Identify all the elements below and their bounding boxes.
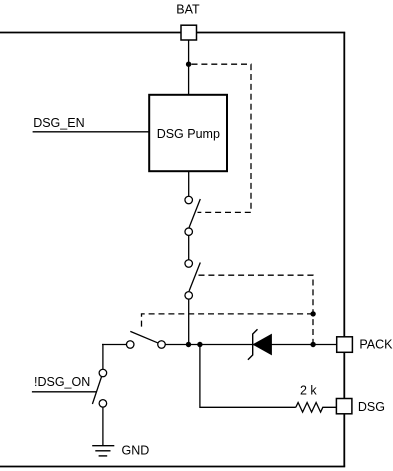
switch S3 arm [130,331,158,343]
wire S1 to S2 [188,235,190,260]
wire S2 to PACK line [188,299,190,345]
wire dashed control from BAT node to switch S1 arm [192,64,252,212]
wire resistor branch [200,345,296,408]
switch S2 arm [189,263,200,292]
wire dashed control branch to switch S3 arm [142,314,314,329]
node junction below BAT [186,61,191,66]
node junction dashed control / PACK line [310,342,315,347]
switch S2 bottom contact [185,292,193,300]
wire main PACK line [165,344,337,346]
switch S4 top contact [99,369,107,377]
wire right rail (PACK- bus) [343,33,345,467]
wire DSG Pump output to switch S1 [188,171,190,196]
switch S4 arm [92,377,101,405]
svg-text:DSG_EN: DSG_EN [33,116,84,130]
diode D1 zener cathode bar [248,329,258,360]
switch S1 bottom contact [185,228,193,236]
switch S2 top contact [185,260,193,268]
wire DSG_EN input [33,131,150,133]
svg-text:DSG Pump: DSG Pump [157,127,220,141]
svg-text:DSG: DSG [358,400,385,414]
svg-text:BAT: BAT [176,3,200,17]
svg-text:!DSG_ON: !DSG_ON [34,375,90,389]
terminal BAT [181,25,197,40]
svg-text:2 k: 2 k [300,384,317,398]
switch S1 arm [189,199,200,228]
switch S3 right contact [158,341,166,349]
switch S4 bottom contact [99,400,107,408]
wire !DSG_ON control [32,391,97,393]
switch S1 top contact [185,196,193,204]
wire bottom rail [0,466,345,468]
terminal DSG [336,399,352,414]
op-amp U1 DSG Pump box [149,95,227,171]
wire BAT terminal to DSG Pump [188,40,190,95]
node junction on dashed control [310,311,315,316]
switch S3 left contact [126,341,134,349]
wire corner down to switch S4 [102,344,104,370]
wire dashed control from switch S2 arm to PACK node [199,275,314,343]
node junction resistor branch [197,342,202,347]
wire left stub to switch S3 [102,344,127,346]
resistor R1 2k zigzag [296,403,337,413]
terminal PACK [337,337,353,353]
diode D1 zener triangle [253,335,271,355]
ground [92,446,114,456]
wire top rail (BAT bus) [0,32,345,34]
svg-text:PACK: PACK [359,338,393,352]
node junction switch chain / PACK line [186,342,191,347]
wire S4 to ground [102,407,104,446]
svg-text:GND: GND [122,443,150,457]
